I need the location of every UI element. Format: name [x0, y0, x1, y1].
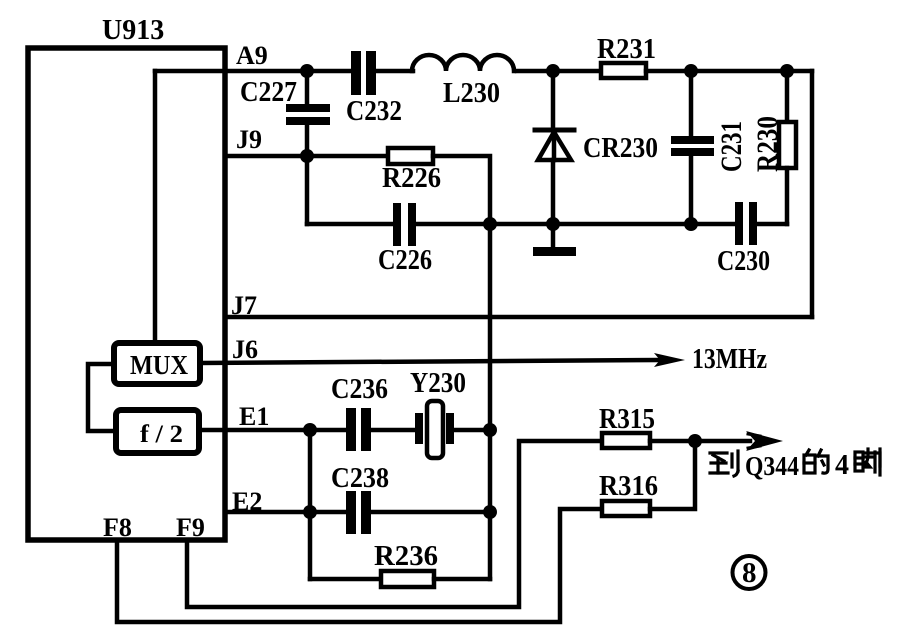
svg-text:CR230: CR230: [583, 133, 658, 164]
svg-text:F9: F9: [176, 513, 205, 542]
node C231 bottom: [684, 217, 698, 231]
resistor R230: [785, 71, 790, 122]
svg-text:L230: L230: [443, 78, 500, 109]
node C226 right: [483, 217, 497, 231]
inductor L230: [412, 55, 514, 71]
wire right edge down to J7: [810, 71, 815, 317]
hanzi dao: [710, 451, 738, 476]
node R230 top: [780, 64, 794, 78]
wire R316 up to node: [650, 441, 695, 509]
circled 8: [733, 556, 766, 589]
wire R231 to right corner: [646, 69, 812, 74]
node R315 output: [688, 434, 702, 448]
svg-text:Y230: Y230: [410, 368, 466, 399]
crystal Y230: [415, 413, 423, 444]
capacitor C226: [305, 156, 310, 224]
svg-text:13MHz: 13MHz: [692, 344, 767, 375]
svg-text:R230: R230: [751, 116, 784, 172]
svg-text:U913: U913: [102, 15, 164, 46]
svg-text:J9: J9: [236, 125, 262, 154]
f/2 block: [116, 410, 199, 453]
wire MUX to f/2 link: [88, 364, 116, 431]
svg-text:R236: R236: [374, 541, 438, 572]
vertical wire x310 E1-E2-R236: [308, 430, 313, 579]
node J9 junction: [300, 149, 314, 163]
node C238 right: [483, 505, 497, 519]
wire R315 to arrow: [650, 439, 750, 444]
wire A9 horizontal: [155, 69, 351, 74]
svg-text:f / 2: f / 2: [140, 421, 183, 448]
svg-text:C231: C231: [715, 121, 748, 172]
wire E2: [225, 510, 346, 515]
wire J6 13MHz: [200, 360, 658, 363]
capacitor C238: [346, 491, 356, 534]
capacitor C236: [346, 408, 356, 451]
svg-text:F8: F8: [103, 513, 132, 542]
hanzi de: [804, 450, 828, 473]
wire J9: [225, 154, 388, 159]
resistor R316: [602, 501, 650, 516]
svg-text:R315: R315: [599, 404, 655, 435]
wire J7: [225, 315, 812, 320]
capacitor C227: [305, 71, 310, 105]
wire A9 internal vertical to MUX: [153, 71, 158, 343]
svg-text:C226: C226: [378, 245, 432, 276]
resistor R231: [601, 63, 646, 78]
diode CR230: [551, 71, 556, 130]
svg-text:C230: C230: [717, 246, 770, 277]
capacitor C230: [735, 202, 743, 245]
arrow to Q344: [746, 431, 783, 451]
vertical bus wire x490: [488, 224, 493, 579]
svg-text:E1: E1: [239, 402, 269, 431]
wire R226 right down: [433, 156, 490, 224]
node C231 top: [684, 64, 698, 78]
svg-text:R316: R316: [599, 471, 658, 502]
node E1 junction: [303, 423, 317, 437]
svg-text:MUX: MUX: [130, 350, 188, 380]
svg-text:Q344: Q344: [745, 451, 799, 481]
MUX block: [114, 343, 200, 384]
resistor R226: [388, 148, 433, 164]
node E2 junction: [303, 505, 317, 519]
svg-text:C238: C238: [331, 463, 389, 494]
node CR230 bottom: [546, 217, 560, 231]
svg-text:J6: J6: [232, 335, 258, 364]
node A9 junction: [300, 64, 314, 78]
svg-text:C227: C227: [240, 77, 297, 108]
svg-text:4: 4: [835, 450, 849, 481]
capacitor C231: [689, 71, 694, 136]
svg-text:8: 8: [742, 557, 757, 589]
svg-text:R226: R226: [382, 163, 441, 194]
svg-text:R231: R231: [597, 34, 656, 65]
wire F9 to R315: [187, 441, 602, 607]
resistor R236: [310, 577, 381, 582]
wire E1: [199, 428, 346, 433]
node CR230 top: [546, 64, 560, 78]
wire ground net horizontal: [307, 222, 393, 227]
svg-text:A9: A9: [236, 41, 268, 70]
hanzi jiao: [855, 449, 880, 475]
capacitor C232: [351, 51, 361, 95]
svg-text:C236: C236: [331, 374, 388, 405]
ground: [551, 224, 556, 247]
wire L230 to R231: [517, 69, 601, 74]
node Y230 right: [483, 423, 497, 437]
IC U913 box: [28, 48, 225, 540]
wire F8 to R316: [117, 509, 602, 622]
svg-text:C232: C232: [346, 96, 402, 127]
resistor R315: [602, 433, 650, 448]
